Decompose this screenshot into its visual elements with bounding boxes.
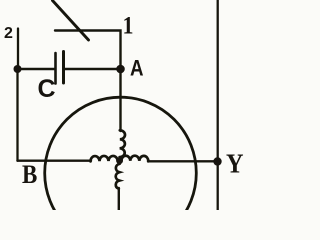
wire: capacitor to node A <box>65 68 121 70</box>
svg-text:1: 1 <box>123 13 134 40</box>
svg-text:Y: Y <box>226 149 244 179</box>
winding center junction <box>116 157 123 164</box>
node Y junction dot <box>213 157 221 165</box>
winding coil bottom arm <box>116 164 120 189</box>
wire: terminal 2 stub <box>17 29 19 69</box>
switch blade <box>53 1 89 41</box>
svg-text:C: C <box>38 75 56 103</box>
capacitor C right plate <box>62 52 65 84</box>
wire: right coil to node Y <box>148 160 218 162</box>
wire: right vertical full height <box>217 0 219 210</box>
svg-text:A: A <box>130 56 144 81</box>
node A junction dot <box>116 65 125 74</box>
winding coil right arm <box>121 156 148 162</box>
svg-text:2: 2 <box>4 25 13 42</box>
winding coil top arm <box>120 130 125 157</box>
wire: switch horizontal to corner, down to node A and into coil <box>55 31 121 132</box>
wire: node 2 to capacitor <box>18 68 55 70</box>
node 2 junction dot <box>14 65 22 73</box>
wire: left vertical from node 2 down to B corner <box>16 69 18 161</box>
motor stator circle <box>45 97 197 240</box>
winding coil left arm <box>90 156 117 161</box>
capacitor C left plate <box>54 53 57 84</box>
wire: bottom lead to edge <box>118 188 120 210</box>
wire: B horizontal into circle <box>18 159 92 161</box>
svg-text:B: B <box>22 160 37 189</box>
